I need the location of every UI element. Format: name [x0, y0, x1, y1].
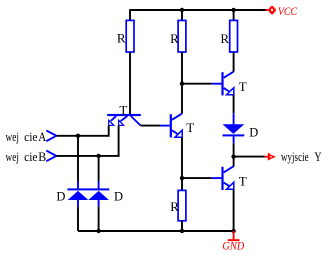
- wire D1 to bottom rail: [77, 207, 79, 231]
- svg-text:B: B: [38, 149, 46, 164]
- wire R4 to bottom rail: [181, 221, 183, 231]
- svg-text:R: R: [117, 31, 126, 46]
- svg-text:wyjscie: wyjscie: [281, 149, 309, 164]
- node J1: [180, 82, 184, 86]
- svg-text:Y: Y: [314, 149, 322, 164]
- power VCC: [266, 6, 298, 18]
- transistor T1 (multi-emitter): [107, 103, 141, 126]
- wire T3 emitter to D3: [233, 95, 235, 114]
- ground GND: [222, 231, 245, 253]
- svg-text:wej: wej: [6, 149, 19, 164]
- svg-text:D: D: [56, 189, 65, 203]
- resistor R4: [170, 190, 186, 220]
- wire R1 top lead: [129, 9, 131, 20]
- port wej cie A: [6, 129, 57, 144]
- wire input B to T1 emitter2: [56, 125, 118, 156]
- wire R3 top lead: [233, 10, 235, 21]
- svg-text:R: R: [170, 31, 179, 46]
- resistor R3: [220, 20, 237, 52]
- node wire B / D2: [96, 154, 100, 158]
- node J2: [180, 176, 184, 180]
- wire J1 to T3 base: [182, 83, 212, 85]
- wire R2 top lead: [181, 10, 183, 21]
- svg-text:A: A: [38, 129, 47, 144]
- wire T1 collector to T2 base: [140, 125, 160, 127]
- svg-text:T: T: [119, 103, 127, 118]
- diode D3: [223, 124, 259, 143]
- wire J2 to T4 base: [182, 177, 212, 179]
- transistor T3: [212, 72, 247, 96]
- svg-text:cie: cie: [24, 129, 38, 144]
- svg-text:cie: cie: [24, 149, 38, 164]
- svg-text:D: D: [249, 125, 258, 139]
- svg-text:T: T: [239, 79, 247, 94]
- transistor T4: [212, 166, 247, 190]
- wire top VCC rail: [130, 9, 266, 11]
- wire bottom rail: [78, 230, 234, 232]
- svg-text:R: R: [170, 199, 179, 214]
- svg-text:GND: GND: [222, 241, 245, 253]
- wire B node to D2: [98, 156, 100, 181]
- wire output: [234, 156, 265, 158]
- node output junction: [231, 154, 235, 158]
- port wyjscie Y: [265, 149, 322, 164]
- node rail/R4: [180, 229, 184, 233]
- node rail/D2: [96, 229, 100, 233]
- svg-text:T: T: [186, 120, 194, 135]
- wire output node to T4 collector: [233, 157, 235, 167]
- svg-text:VCC: VCC: [278, 6, 297, 18]
- svg-text:wej: wej: [6, 129, 19, 144]
- wire R3 to T3 collector: [233, 52, 235, 72]
- wire R2 to J1 to T2 collector: [181, 52, 183, 114]
- diode D2: [88, 181, 123, 207]
- node junction top rail / R2: [180, 8, 184, 12]
- node wire A / D1: [76, 134, 80, 138]
- resistor R1: [117, 20, 134, 52]
- svg-text:T: T: [239, 174, 247, 189]
- wire T4 emitter to rail: [233, 189, 235, 231]
- port wej cie B: [6, 149, 57, 164]
- svg-text:R: R: [220, 31, 229, 46]
- node junction top rail / R3: [231, 8, 235, 12]
- wire D3 to output node: [233, 143, 235, 156]
- wire input A to T1 emitter1: [56, 125, 108, 136]
- wire D2 to bottom rail: [98, 207, 100, 231]
- transistor T2: [170, 114, 195, 138]
- svg-text:D: D: [114, 189, 123, 203]
- resistor R2: [170, 20, 186, 52]
- wire A node to D1: [77, 136, 79, 181]
- wire T2 emitter to J2: [181, 137, 183, 178]
- diode D1: [56, 181, 88, 207]
- node rail/GND: [231, 229, 235, 233]
- wire J2 to R4: [181, 178, 183, 190]
- wire R1 to T1 base: [129, 52, 131, 114]
